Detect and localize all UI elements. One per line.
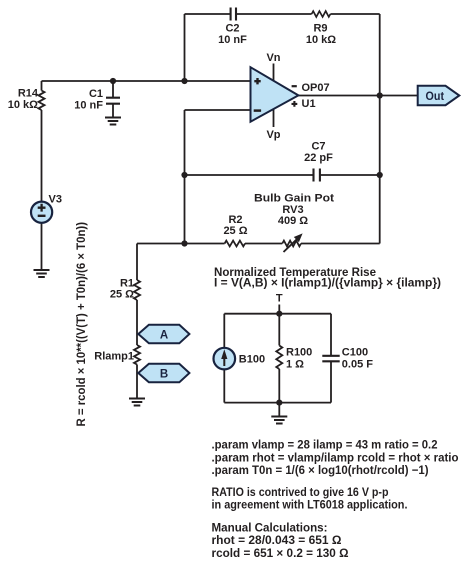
svg-text:Vp: Vp: [266, 129, 280, 141]
svg-text:Vn: Vn: [266, 52, 280, 64]
wire left feedback rail: [184, 14, 186, 81]
svg-text:B100: B100: [239, 354, 265, 366]
svg-text:I = V(A,B) × I(rlamp1)/({vlamp: I = V(A,B) × I(rlamp1)/({vlamp} × {ilamp…: [214, 276, 441, 290]
wire bottom net segment 2: [245, 243, 282, 245]
resistor R14: [8, 81, 45, 111]
wire top feedback middle segment: [236, 13, 312, 15]
wire top feedback left segment: [185, 13, 231, 15]
svg-text:25 Ω: 25 Ω: [110, 289, 134, 301]
svg-text:C1: C1: [89, 88, 103, 100]
svg-text:A: A: [160, 330, 168, 342]
svg-text:R100: R100: [286, 346, 312, 358]
svg-text:R1: R1: [120, 277, 134, 289]
wire op-amp output: [298, 95, 417, 97]
resistor Rlamp1: [94, 345, 140, 365]
svg-text:R = rcold × 10**((V(T) + T0n)/: R = rcold × 10**((V(T) + T0n)/(6 × T0n)): [74, 222, 88, 427]
node junction C7 right: [377, 172, 383, 178]
wire R100 top stub: [278, 314, 280, 346]
wire mid-left rail: [184, 110, 186, 244]
wire V3 to ground: [41, 223, 43, 271]
node junction T: [276, 311, 282, 317]
ground under C1: [105, 118, 121, 125]
wire Rlamp1 to ground: [136, 365, 138, 399]
svg-text:.param vlamp = 28 ilamp = 43 m: .param vlamp = 28 ilamp = 43 m ratio = 0…: [212, 437, 438, 451]
svg-text:10 kΩ: 10 kΩ: [8, 99, 38, 111]
capacitor C2: [218, 8, 247, 47]
resistor R9: [306, 11, 336, 46]
wire subcircuit top: [224, 313, 331, 315]
resistor R100: [276, 346, 312, 371]
wire noninverting input net: [42, 80, 251, 82]
svg-text:OP07: OP07: [302, 82, 330, 94]
wire subcircuit ground stub: [278, 403, 280, 417]
potentiometer RV3 Bulb Gain Pot: [254, 192, 334, 252]
svg-text:25 Ω: 25 Ω: [223, 225, 247, 237]
capacitor C1: [74, 88, 120, 112]
wire inverting input: [185, 109, 251, 111]
voltage source V3: [31, 194, 62, 223]
resistor R2: [223, 214, 247, 247]
node junction bottom net left: [181, 240, 187, 246]
wire bottom net segment 3: [301, 243, 380, 245]
svg-text:R2: R2: [228, 214, 242, 226]
svg-text:0.05 F: 0.05 F: [342, 358, 373, 370]
node junction C7 left: [181, 172, 187, 178]
svg-text:10 kΩ: 10 kΩ: [306, 34, 336, 46]
resistor R1: [110, 277, 140, 300]
svg-text:rcold = 651 × 0.2 = 130 Ω: rcold = 651 × 0.2 = 130 Ω: [212, 546, 349, 560]
wire R100 bottom stub: [278, 369, 280, 403]
ground under Rlamp1: [129, 399, 145, 406]
wire lower-left rail to R1: [136, 244, 138, 281]
svg-text:409 Ω: 409 Ω: [278, 215, 308, 227]
svg-text:Bulb Gain Pot: Bulb Gain Pot: [254, 192, 334, 204]
node junction subcircuit bottom: [276, 400, 282, 406]
capacitor C100: [322, 346, 373, 370]
current source B100: [214, 348, 266, 370]
ground subcircuit: [271, 417, 287, 424]
wire R1 to Rlamp1: [136, 300, 138, 345]
svg-text:C100: C100: [342, 346, 368, 358]
node flag A: [138, 325, 189, 344]
svg-text:V3: V3: [49, 194, 62, 206]
node Out junction: [377, 92, 383, 98]
wire top feedback right segment: [330, 13, 379, 15]
svg-text:R14: R14: [18, 88, 39, 100]
wire right rail: [379, 14, 381, 244]
node Out flag: [418, 86, 460, 105]
wire B100 top stub: [223, 314, 225, 348]
svg-text:C2: C2: [225, 23, 239, 35]
node flag B: [138, 364, 189, 383]
node junction C1 tap: [110, 78, 116, 84]
svg-text:Out: Out: [426, 91, 445, 103]
wire R14 to V3: [41, 110, 43, 203]
svg-text:10 nF: 10 nF: [218, 34, 247, 46]
svg-text:U1: U1: [302, 98, 316, 110]
svg-text:.param T0n = 1/(6 × log10(rhot: .param T0n = 1/(6 × log10(rhot/rcold) −1…: [212, 463, 429, 477]
wire B100 bottom stub: [223, 369, 225, 402]
svg-text:B: B: [160, 369, 168, 381]
node T: [278, 305, 280, 314]
ground under V3: [34, 270, 50, 277]
svg-text:22 pF: 22 pF: [304, 152, 333, 164]
wire C1 to ground: [112, 104, 114, 118]
svg-text:Rlamp1: Rlamp1: [94, 351, 134, 363]
wire subcircuit bottom: [224, 402, 331, 404]
svg-text:1 Ω: 1 Ω: [286, 358, 304, 370]
wire bottom net segment 1: [137, 243, 225, 245]
wire C1 top stub: [112, 81, 114, 98]
op-amp U1 OP07: [251, 52, 330, 141]
wire C7 net right segment: [320, 174, 380, 176]
wire C7 net left segment: [185, 174, 314, 176]
wire C100 top stub: [330, 314, 332, 356]
svg-text:R9: R9: [313, 23, 327, 35]
svg-text:C7: C7: [311, 141, 325, 153]
svg-text:in agreement with LT6018 appli: in agreement with LT6018 application.: [212, 498, 408, 512]
wire C100 bottom stub: [330, 361, 332, 402]
capacitor C7: [304, 141, 333, 182]
svg-text:T: T: [276, 293, 283, 305]
svg-text:10 nF: 10 nF: [74, 100, 103, 112]
node junction feedback tap: [181, 78, 187, 84]
